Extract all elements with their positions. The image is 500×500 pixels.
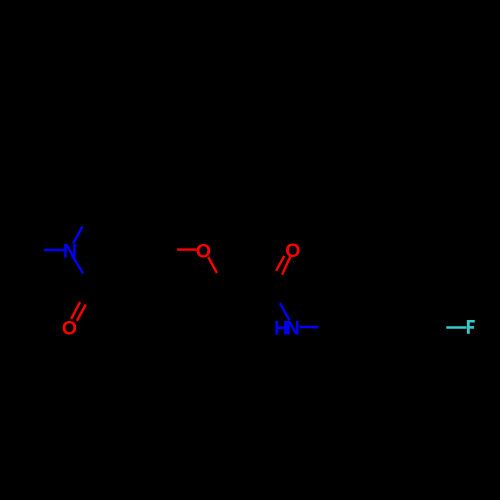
svg-text:O: O [285, 240, 300, 262]
svg-text:N: N [286, 317, 300, 339]
svg-text:O: O [196, 241, 211, 263]
svg-text:N: N [63, 241, 77, 263]
svg-text:O: O [62, 317, 77, 339]
